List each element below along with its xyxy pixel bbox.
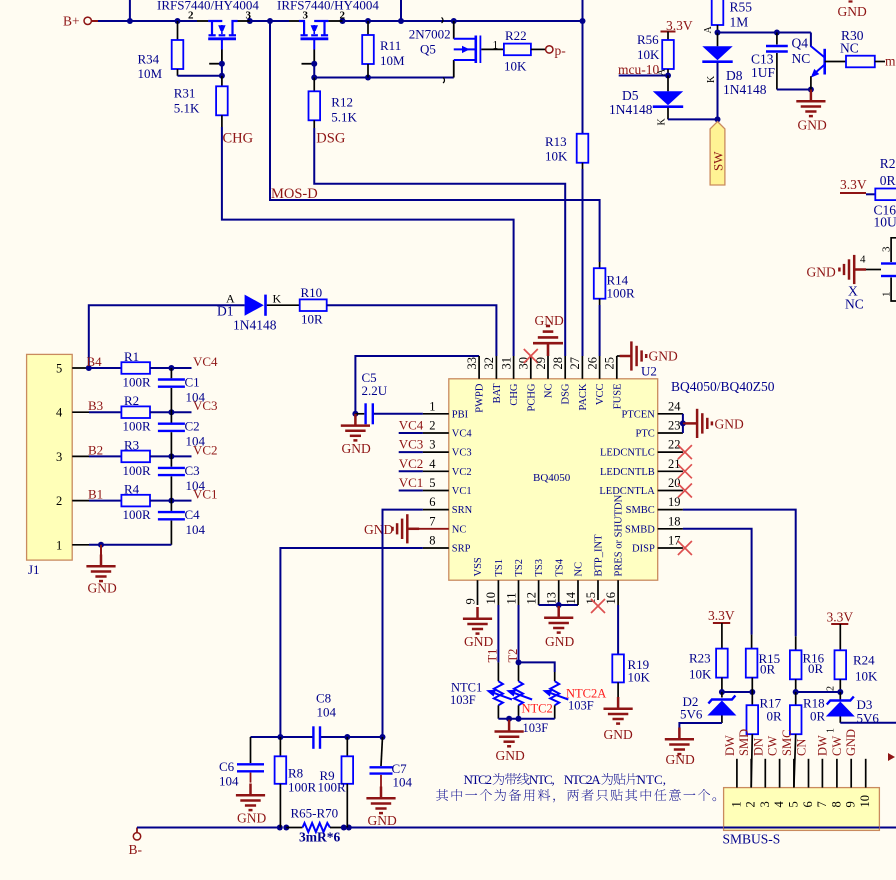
capacitor C13 [751, 33, 788, 90]
net label mcu-10 [618, 62, 668, 77]
resistor R1 [89, 349, 192, 390]
svg-text:104: 104 [186, 434, 206, 449]
svg-text:7: 7 [815, 801, 829, 807]
wire TS2 to NTC2 [518, 605, 520, 662]
svg-text:CHG: CHG [223, 131, 254, 147]
pin 5 VC1 [399, 475, 472, 497]
svg-text:5: 5 [56, 362, 62, 376]
pin 7 NC + ground [364, 514, 466, 543]
svg-text:100R: 100R [318, 779, 347, 794]
svg-text:0R: 0R [808, 661, 824, 676]
capacitor C5 [355, 370, 423, 424]
node top rail junctions [127, 18, 586, 24]
pin 3 VC3 [399, 437, 472, 459]
node SMC clamp [793, 689, 844, 695]
svg-text:NC: NC [845, 297, 864, 312]
svg-text:16: 16 [604, 592, 618, 605]
svg-text:SMBUS-S: SMBUS-S [723, 832, 781, 847]
smbus pin 10 [858, 759, 872, 808]
ground GND (C7) [366, 787, 397, 829]
resistor R10 [300, 285, 327, 327]
svg-text:B+: B+ [63, 14, 80, 29]
capacitor C16 10U (label, cut) [874, 203, 896, 230]
ground GND (Q4 emitter) [796, 90, 827, 133]
resistor R31 [174, 76, 228, 127]
svg-text:GND: GND [237, 811, 266, 826]
svg-text:NC: NC [544, 384, 555, 399]
svg-text:NC: NC [840, 41, 859, 56]
svg-text:23: 23 [668, 419, 681, 433]
svg-text:LEDCNTLA: LEDCNTLA [599, 486, 655, 497]
node TS2 branch [516, 659, 522, 665]
pin 4 VC2 [399, 456, 472, 478]
svg-text:PTCEN: PTCEN [622, 409, 656, 420]
svg-text:CHG: CHG [509, 383, 520, 406]
node SMD clamp [719, 689, 755, 695]
capacitor C6 [219, 737, 264, 789]
svg-text:10U: 10U [874, 215, 896, 230]
node B4 [86, 365, 92, 371]
svg-text:3: 3 [56, 450, 62, 464]
svg-text:GND: GND [368, 813, 397, 828]
svg-text:C2: C2 [185, 419, 200, 434]
zener D2 5V6 [680, 692, 736, 723]
svg-text:6: 6 [429, 495, 435, 509]
svg-text:TS2: TS2 [514, 559, 525, 577]
svg-text:4: 4 [772, 801, 786, 808]
svg-text:NTC,: NTC, [529, 772, 555, 787]
capacitor C3 [158, 456, 206, 500]
ground GND (R19) [604, 697, 633, 742]
svg-text:5V6: 5V6 [680, 707, 703, 722]
svg-text:FUSE: FUSE [612, 384, 623, 410]
ground GND (J1) [86, 545, 117, 596]
svg-text:BTP_INT: BTP_INT [594, 534, 605, 577]
port p- [546, 43, 567, 58]
svg-text:103F: 103F [523, 721, 549, 735]
wire clamp node right [796, 691, 841, 693]
svg-text:1M: 1M [730, 15, 749, 30]
svg-text:Q4: Q4 [792, 36, 809, 51]
svg-text:1: 1 [493, 40, 499, 52]
zener D3 5V6 [826, 692, 880, 726]
ground GND (C5) [341, 414, 371, 456]
svg-text:BAT: BAT [492, 383, 503, 403]
svg-text:GND: GND [545, 634, 574, 649]
wire gate2 node row [314, 64, 454, 78]
pin 6 SRN [423, 495, 473, 516]
svg-text:5.1K: 5.1K [331, 109, 357, 124]
svg-text:3: 3 [246, 10, 252, 22]
svg-text:8: 8 [429, 534, 435, 548]
pin 10 TS1 [484, 559, 505, 605]
svg-text:NC: NC [792, 51, 811, 66]
resistor R23 [689, 649, 728, 692]
wire SRP to C6 node [280, 548, 423, 737]
svg-text:GND: GND [604, 727, 633, 742]
svg-text:IRFS7440/HY4004: IRFS7440/HY4004 [277, 0, 379, 13]
pin 12 TS3 [524, 559, 545, 605]
svg-text:3: 3 [758, 801, 772, 807]
wire SMBD to R15 [683, 529, 752, 635]
svg-text:B1: B1 [88, 487, 103, 502]
resistor R15 [746, 635, 780, 692]
svg-text:IRFS7440/HY4004: IRFS7440/HY4004 [157, 0, 259, 13]
pin 28 DSG [551, 356, 572, 405]
svg-text:100R: 100R [288, 779, 317, 794]
svg-text:CW: CW [766, 736, 780, 756]
svg-text:104: 104 [393, 774, 413, 789]
resistor R14 [594, 262, 635, 305]
resistor R22 [504, 28, 546, 74]
svg-text:R24: R24 [853, 653, 875, 668]
ground GND (NTC) [495, 720, 525, 763]
svg-text:PACK: PACK [578, 383, 589, 410]
svg-text:SMC: SMC [780, 730, 794, 756]
svg-text:VC2: VC2 [452, 467, 472, 478]
svg-text:VC4: VC4 [399, 418, 424, 433]
wire B4 to D1 anode [89, 305, 245, 368]
svg-text:10K: 10K [637, 47, 660, 62]
svg-text:GND: GND [342, 441, 371, 456]
svg-text:R34: R34 [138, 52, 160, 67]
svg-text:GND: GND [464, 634, 493, 649]
svg-text:C6: C6 [219, 759, 235, 774]
svg-text:100R: 100R [123, 419, 152, 434]
wire D2 anode to gnd [679, 723, 722, 738]
svg-text:1: 1 [826, 728, 837, 733]
wire J1 pin1 row [89, 544, 171, 546]
svg-text:25: 25 [603, 357, 617, 370]
node C5 left [352, 411, 358, 417]
wire B- bus left [137, 827, 279, 829]
svg-text:29: 29 [534, 357, 548, 370]
svg-text:7: 7 [429, 514, 435, 528]
svg-text:100R: 100R [607, 286, 636, 301]
resistor R2 [89, 393, 192, 434]
svg-text:GND: GND [649, 349, 678, 364]
resistor R11 [362, 21, 405, 78]
resistor R13 [545, 21, 588, 169]
wire TS2 to NTC2A [519, 662, 555, 672]
wire NTC commons [498, 718, 554, 720]
svg-text:mc: mc [885, 54, 896, 69]
wire SMBC to R16 [683, 510, 796, 637]
svg-text:C8: C8 [316, 691, 331, 706]
svg-text:GND: GND [535, 313, 564, 328]
smbus pin 1 + net DW [723, 735, 744, 808]
svg-text:BQ4050/BQ40Z50: BQ4050/BQ40Z50 [671, 379, 775, 394]
svg-text:VC3: VC3 [452, 448, 472, 459]
pin 15 BTP_INT + X [584, 534, 605, 613]
node Q4 emitter [808, 87, 814, 93]
svg-text:0R: 0R [767, 709, 783, 724]
wire net CHG to pin31 [222, 127, 514, 356]
svg-text:R13: R13 [545, 134, 567, 149]
svg-text:VC1: VC1 [452, 486, 472, 497]
svg-text:3.3V: 3.3V [840, 177, 867, 192]
resistor R16 [790, 636, 825, 692]
svg-text:1N4148: 1N4148 [723, 82, 767, 97]
diode D8 1N4148 [702, 33, 766, 120]
resistor R55 [712, 0, 753, 33]
svg-text:NTC2: NTC2 [522, 702, 553, 716]
svg-text:2: 2 [429, 419, 435, 433]
svg-text:1: 1 [56, 538, 62, 552]
svg-text:DW: DW [723, 735, 737, 756]
svg-text:17: 17 [668, 534, 681, 548]
svg-text:10R: 10R [301, 312, 323, 327]
svg-text:B4: B4 [87, 354, 103, 369]
pin 19 SMBC [626, 495, 683, 516]
svg-text:20: 20 [668, 476, 681, 490]
node sense right [341, 825, 352, 831]
svg-text:21: 21 [668, 457, 681, 471]
svg-text:R12: R12 [331, 94, 353, 109]
net flag tip (right edge) [888, 753, 895, 761]
svg-text:A: A [703, 26, 714, 34]
svg-text:5.1K: 5.1K [174, 101, 200, 116]
svg-text:R8: R8 [288, 766, 303, 781]
wire gate1 to R31 node [221, 64, 223, 76]
pin 18 SMBD [625, 514, 683, 535]
svg-text:3: 3 [303, 10, 309, 22]
svg-text:104: 104 [186, 522, 206, 537]
resistor R30 [840, 28, 885, 67]
svg-text:GND: GND [807, 265, 836, 280]
svg-text:VC4: VC4 [193, 354, 218, 369]
resistor R29 0R (cut at edge) [875, 156, 896, 200]
wire D3 anode right [840, 722, 896, 724]
svg-text:SMD: SMD [737, 729, 751, 756]
svg-text:DSG: DSG [316, 131, 346, 147]
node SW [715, 116, 721, 122]
note text line 2 [436, 789, 716, 803]
svg-text:14: 14 [564, 591, 578, 604]
svg-text:9: 9 [463, 598, 477, 604]
svg-text:C3: C3 [185, 463, 200, 478]
smbus pin 6 + net CN [795, 739, 816, 808]
connector J1 [27, 354, 89, 577]
svg-text:K: K [273, 292, 282, 306]
svg-text:VC3: VC3 [399, 437, 424, 452]
svg-text:6: 6 [801, 801, 815, 807]
svg-text:12: 12 [524, 592, 538, 605]
svg-text:4: 4 [56, 406, 63, 420]
power GND (top right, stub up) [838, 2, 867, 20]
smbus pin 7 + net DW [815, 735, 830, 808]
svg-text:100R: 100R [123, 463, 152, 478]
svg-text:2: 2 [188, 10, 194, 22]
svg-text:R22: R22 [505, 28, 527, 43]
node D8 anode [715, 30, 721, 36]
resistor R19 [612, 654, 650, 697]
svg-text:PRES or SHUTDN: PRES or SHUTDN [614, 494, 625, 576]
wire SRN to C7 node [383, 510, 423, 737]
svg-text:1N4148: 1N4148 [233, 318, 277, 333]
svg-text:SMBC: SMBC [626, 505, 655, 516]
svg-text:PWPD: PWPD [475, 383, 486, 413]
wire R13 to pin27 [582, 169, 584, 356]
svg-text:R23: R23 [689, 651, 711, 666]
resistor R18 [790, 692, 826, 788]
pin 21 LEDCNTLB + X [600, 457, 692, 479]
svg-text:3.3V: 3.3V [708, 608, 735, 623]
pin 14 NC [564, 562, 585, 605]
note text line 1 [464, 772, 667, 787]
svg-text:GND: GND [496, 748, 525, 763]
svg-text:100R: 100R [123, 507, 152, 522]
pin 27 PACK [568, 356, 589, 411]
svg-text:R10: R10 [301, 285, 323, 300]
wire R10 to BAT pin32 [327, 305, 497, 356]
svg-text:CN: CN [795, 739, 809, 756]
svg-text:2: 2 [56, 494, 62, 508]
svg-text:8: 8 [829, 801, 843, 807]
svg-text:VC4: VC4 [452, 429, 473, 440]
svg-text:2: 2 [826, 686, 837, 691]
svg-text:24: 24 [668, 399, 681, 413]
wire R14 to pin26 [599, 305, 601, 356]
pin 13 TS4 + ground [539, 558, 578, 649]
svg-text:GND: GND [715, 416, 744, 431]
transistor Q DSG IRFS7440/HY4004 [277, 0, 379, 64]
svg-text:1: 1 [429, 399, 435, 413]
svg-text:NTC,: NTC, [637, 772, 667, 787]
svg-text:0R: 0R [810, 709, 826, 724]
svg-text:18: 18 [668, 514, 681, 528]
svg-text:C1: C1 [185, 375, 200, 390]
svg-text:10K: 10K [628, 670, 651, 685]
svg-text:PTC: PTC [636, 429, 655, 440]
ground GND (C6) [236, 784, 267, 826]
svg-text:J1: J1 [28, 562, 40, 577]
pin 17 DISP + X [632, 534, 692, 556]
svg-text:2: 2 [340, 10, 346, 22]
svg-text:1: 1 [729, 801, 743, 807]
svg-text:5: 5 [429, 476, 435, 490]
svg-text:B3: B3 [88, 398, 103, 413]
svg-text:R56: R56 [637, 32, 659, 47]
svg-text:10K: 10K [504, 59, 527, 74]
thermistor NTC2A 103F [542, 681, 606, 719]
pin 25 FUSE + ground U2 [603, 341, 678, 409]
pin 2 VC4 [399, 418, 473, 440]
svg-text:2: 2 [744, 801, 758, 807]
port B+ [63, 14, 98, 29]
node C13 top [774, 30, 780, 36]
svg-text:T1: T1 [486, 649, 500, 663]
smbus pin 5 + net SMC [780, 730, 801, 808]
svg-text:104: 104 [317, 705, 337, 720]
wire top rail B+ [98, 0, 583, 21]
smbus pin 2 + net SMD [737, 729, 758, 808]
node gate CHG fet [219, 61, 225, 79]
svg-text:B-: B- [129, 842, 143, 857]
svg-text:R31: R31 [174, 86, 196, 101]
pin 20 LEDCNTLA + X [599, 476, 692, 498]
pin 33 PWPD [465, 356, 486, 413]
svg-text:SW: SW [711, 151, 726, 171]
svg-text:3.3V: 3.3V [827, 610, 854, 625]
svg-text:LEDCNTLC: LEDCNTLC [600, 448, 655, 459]
svg-text:GND: GND [88, 581, 117, 596]
svg-text:GND: GND [364, 522, 393, 537]
svg-text:D1: D1 [217, 304, 234, 319]
wire B- bus right [349, 827, 896, 829]
svg-text:1: 1 [881, 292, 893, 298]
svg-text:1UF: 1UF [751, 65, 775, 80]
wire filter row [251, 736, 383, 738]
node NTC common [506, 716, 521, 722]
svg-text:10K: 10K [855, 669, 878, 684]
svg-text:104: 104 [186, 390, 206, 405]
svg-text:9: 9 [844, 801, 858, 807]
pin 16 PRES [604, 494, 625, 605]
pin 23 PTC + ground [636, 409, 744, 440]
transistor Q5 2N7002 [409, 18, 504, 84]
pin 11 TS2 [504, 559, 525, 605]
wire C13 bottom to Q4 emitter [777, 89, 811, 91]
svg-text:NTC2A: NTC2A [564, 772, 601, 787]
svg-text:DN: DN [751, 738, 765, 756]
wire R34 bottom to gate node [178, 75, 222, 77]
svg-text:C4: C4 [185, 507, 201, 522]
smbus pin 8 + net CW [829, 736, 844, 808]
svg-text:32: 32 [482, 357, 496, 370]
svg-text:VSS: VSS [473, 557, 484, 576]
wire clamp node [722, 691, 752, 693]
svg-text:Q5: Q5 [420, 42, 436, 57]
resistor R12 [309, 78, 358, 129]
capacitor C1 [158, 368, 206, 412]
connector SMBUS-S [723, 788, 880, 847]
resistor R24 [835, 650, 879, 692]
pin 31 CHG [499, 356, 520, 406]
transistor Q4 NPN [792, 33, 847, 90]
pin 24 PTCEN [622, 399, 683, 420]
svg-text:SRP: SRP [452, 544, 471, 555]
svg-text:4: 4 [860, 254, 866, 266]
svg-text:VCC: VCC [595, 384, 606, 406]
node VC4 cap chain [168, 365, 174, 504]
svg-text:0R: 0R [760, 662, 776, 677]
resistor R17 [747, 692, 783, 788]
svg-text:A: A [657, 68, 668, 76]
svg-text:PBI: PBI [452, 409, 469, 420]
node J1 gnd [98, 542, 104, 548]
svg-text:3mR*6: 3mR*6 [299, 830, 340, 845]
svg-text:VC2: VC2 [399, 456, 424, 471]
svg-text:0R: 0R [880, 173, 896, 188]
wire D5 cathode to SW node [668, 118, 718, 120]
svg-text:10K: 10K [689, 667, 712, 682]
diode D1 1N4148 [217, 292, 300, 333]
capacitor C8 [313, 691, 336, 749]
resistor R3 [89, 437, 192, 478]
svg-text:13: 13 [545, 592, 559, 605]
transistor Q CHG IRFS7440/HY4004 [157, 0, 259, 64]
smbus pin 4 + net CW [766, 736, 787, 808]
svg-text:GND: GND [798, 118, 827, 133]
svg-text:DW: DW [815, 735, 829, 756]
thermistor NTC1 103F [450, 681, 512, 719]
svg-text:19: 19 [668, 495, 681, 509]
svg-text:104: 104 [186, 478, 206, 493]
node sense left [277, 825, 290, 831]
svg-text:BQ4050: BQ4050 [533, 472, 571, 484]
svg-text:p-: p- [555, 43, 567, 58]
